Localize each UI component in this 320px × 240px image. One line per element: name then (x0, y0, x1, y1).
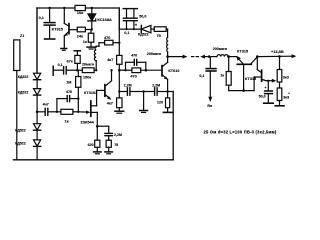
diode KD522 D3 (34, 124, 41, 130)
transistor Q1 KT315 (63, 8, 65, 23)
svg-text:0,1: 0,1 (124, 31, 129, 35)
node source (96, 125, 99, 128)
node zener bottom (91, 28, 93, 30)
svg-text:КТ610: КТ610 (168, 69, 179, 73)
wire long vertical upper (118, 8, 120, 55)
svg-text:470: 470 (104, 36, 110, 40)
svg-text:4к7: 4к7 (107, 58, 113, 62)
capacitor 0,1 output (209, 57, 211, 69)
node 2.2M wire tap (118, 90, 120, 92)
diode KD522 D2 (34, 89, 41, 95)
capacitor 470 bridge (56, 99, 58, 112)
svg-text:75: 75 (114, 143, 118, 147)
svg-text:50,0: 50,0 (139, 14, 146, 18)
wire left rail down (36, 8, 38, 73)
node output line (166, 55, 169, 58)
svg-text:150к: 150к (83, 75, 91, 79)
node output cap (208, 55, 211, 58)
node 1k-left-end (56, 111, 58, 113)
svg-text:2,2М: 2,2М (124, 83, 132, 87)
svg-text:КТ315: КТ315 (237, 50, 248, 54)
node bracket left (124, 69, 126, 71)
arrow to load Rn (208, 97, 212, 102)
resistor 3k3 upper (279, 56, 281, 69)
filter caps top bar (123, 8, 137, 10)
svg-text:2,2М: 2,2М (152, 83, 160, 87)
inductor 20uH (95, 61, 97, 71)
svg-text:КД522: КД522 (18, 91, 29, 95)
svg-text:КТ315: КТ315 (52, 26, 64, 31)
wire supply node horizontal (119, 28, 141, 30)
wire arrow left (200, 55, 205, 59)
resistor 67k (74, 50, 80, 52)
node 470/1M (77, 97, 79, 99)
resistor 1k left (90, 30, 92, 34)
svg-text:470: 470 (130, 74, 136, 78)
svg-text:10к: 10к (77, 10, 83, 15)
diode KD522 supply (140, 25, 142, 32)
resistor 470 top (105, 40, 113, 45)
svg-text:Rн: Rн (207, 104, 212, 108)
svg-text:КС168А: КС168А (97, 17, 112, 22)
input terminal (52, 66, 54, 75)
svg-text:4н7: 4н7 (43, 103, 49, 107)
resistor 75 supply (154, 27, 166, 32)
svg-text:Z1: Z1 (20, 34, 24, 38)
capacitor 0,1 filter (126, 9, 128, 18)
svg-text:25 Ом d=32 L=100 ПВ-3 (3х2,5мм: 25 Ом d=32 L=100 ПВ-3 (3х2,5мм) (204, 129, 277, 134)
svg-text:КД522: КД522 (15, 129, 26, 133)
node 470 / long vertical (118, 42, 120, 44)
wire Q1 base to 24k (69, 29, 77, 31)
node Q3 base (242, 89, 245, 92)
wire 24k to zener node (85, 29, 91, 31)
resistor 24k (77, 27, 85, 32)
svg-text:0,1: 0,1 (199, 74, 204, 78)
wire output with arrow (168, 56, 183, 58)
node top rail cap tap (48, 7, 50, 9)
transistor Q3 KT315 (237, 63, 251, 65)
svg-text:+13,8В: +13,8В (271, 49, 284, 54)
resistor 120 (167, 92, 169, 98)
svg-text:120: 120 (157, 101, 163, 105)
svg-text:1к: 1к (220, 73, 224, 77)
node KT3102 collector (110, 69, 112, 71)
resistor 1k right (228, 57, 230, 72)
wire bottom rail (13, 159, 173, 161)
resistor 4k7 upper (117, 55, 122, 64)
ground under 1k (87, 46, 95, 48)
node gate wire / diode chain (36, 111, 39, 114)
wire source to RC (97, 125, 108, 127)
svg-text:470: 470 (131, 53, 137, 57)
wire base line bottom (229, 90, 254, 92)
node +rail 3k3 (278, 55, 281, 58)
resonator Z1 (14, 40, 20, 71)
node 1k-right-end (77, 111, 79, 113)
wire top rail left (37, 7, 75, 9)
svg-text:КД522: КД522 (15, 142, 26, 146)
svg-text:0,1: 0,1 (39, 16, 44, 20)
node top rail zener tap (91, 7, 93, 9)
capacitor 2,2M b (144, 91, 154, 93)
svg-text:1к: 1к (83, 39, 87, 44)
svg-text:1к: 1к (65, 119, 69, 123)
svg-text:0,1: 0,1 (58, 63, 63, 67)
svg-text:200мкгн: 200мкгн (213, 47, 228, 51)
svg-text:КД522: КД522 (18, 75, 29, 79)
svg-text:20мкгн: 20мкгн (82, 63, 94, 67)
node top rail Q1 collector (63, 7, 65, 9)
svg-text:620: 620 (88, 143, 94, 147)
capacitor 50.0 filter (133, 9, 135, 18)
capacitor 0,1 input (63, 67, 65, 74)
svg-text:470: 470 (66, 90, 72, 94)
inductor 200uH horizontal (209, 56, 217, 58)
wire to bottom rail (168, 91, 174, 93)
resistor 1k gate (57, 111, 61, 113)
wire gate line from node to 4n7 (37, 111, 44, 113)
wire 2.2M line (119, 91, 126, 93)
zener KC168A (91, 8, 93, 14)
transistor KT3102 (104, 85, 106, 97)
svg-text:2,2М: 2,2М (114, 133, 122, 137)
resistor 75 source (106, 140, 111, 147)
wire dashes (192, 56, 194, 58)
capacitor 2,2M a (126, 88, 128, 95)
corner vertical from top rail (118, 8, 120, 29)
svg-text:3к3: 3к3 (283, 75, 289, 79)
resistor 10k (75, 5, 85, 10)
node mid-wire long vertical (118, 69, 121, 72)
svg-text:1М: 1М (66, 81, 71, 85)
wire gate arrow (78, 111, 87, 113)
node 2.2M mid ground (142, 90, 144, 92)
node bracket right (145, 69, 148, 72)
svg-text:200мкгн: 200мкгн (147, 52, 162, 56)
resistor 150k (77, 69, 82, 71)
capacitor 0.1 top-left (49, 8, 51, 22)
svg-text:2SК544: 2SК544 (80, 120, 94, 124)
svg-text:КД522: КД522 (138, 33, 149, 37)
resistor 470 mid-wire (119, 69, 132, 71)
ground under 620 (94, 151, 102, 153)
node 1k right tap (227, 55, 230, 58)
node +rail Q3 (256, 55, 259, 58)
capacitor 4n7 (44, 108, 46, 115)
node KT610 emitter (166, 90, 169, 93)
diode KD522 D4 (34, 140, 41, 146)
capacitor 50.0 emitter (267, 80, 269, 82)
svg-text:50,0: 50,0 (259, 94, 266, 98)
transistor 2SK544 (90, 101, 92, 116)
ground under cap 0.1 (45, 38, 55, 40)
ground 2.2M mid (140, 110, 148, 112)
transistor KT610 (161, 66, 163, 76)
svg-text:3к3: 3к3 (283, 96, 289, 100)
wire 75 to coil (166, 28, 167, 30)
wire long vertical lower (118, 70, 120, 98)
wire +13.8V rail (257, 55, 292, 57)
resistor 3k3 lower (279, 82, 281, 88)
ground under 75 (105, 151, 113, 153)
svg-text:24к: 24к (77, 33, 83, 38)
wire top rail right of 10k (85, 7, 119, 9)
diode KD522 D1 (34, 73, 41, 79)
ground under Q1 emitter (61, 48, 67, 50)
svg-text:КТ315: КТ315 (245, 77, 256, 81)
inductor 200uH vertical (166, 37, 169, 52)
capacitor 2,2M bypass (105, 132, 113, 134)
svg-text:67к: 67к (67, 60, 73, 64)
capacitor 470 parallel bracket (125, 62, 127, 70)
node coil 20uH bottom (95, 69, 97, 71)
svg-text:КТ3102: КТ3102 (84, 91, 97, 95)
resistor 4k7 lower (117, 98, 122, 108)
resistor 1M (77, 70, 79, 76)
transistor Q4 KT315 (256, 57, 258, 70)
resistor 620 (96, 126, 98, 140)
ground under 4k7 lower (115, 110, 124, 112)
wire riser to Q4 base (253, 77, 255, 91)
node mid-wire 67k (76, 69, 79, 72)
svg-text:4к7: 4к7 (107, 102, 113, 106)
wire to Q3 emitter (229, 56, 237, 58)
